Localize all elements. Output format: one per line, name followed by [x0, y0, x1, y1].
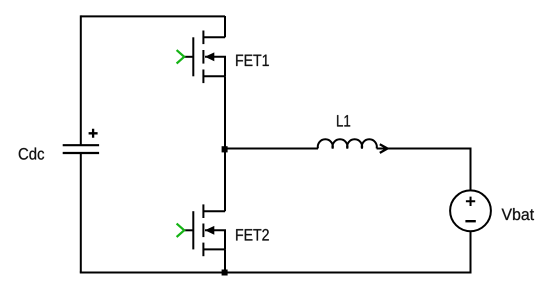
capacitor Cdc polarity plus: [89, 129, 98, 138]
gate arrow FET2 (green): [177, 224, 185, 237]
wire bottom rail: [80, 272, 471, 274]
label L1: [337, 115, 350, 126]
node switch-node junction dot: [222, 146, 228, 152]
label FET2: [236, 229, 269, 241]
transistor Q2 FET2: [177, 204, 225, 256]
wire Vbat bottom vertical: [470, 231, 472, 274]
gate arrow FET1 (green): [177, 50, 185, 63]
wire left rail upper segment: [80, 15, 82, 145]
wire left rail lower segment: [80, 153, 82, 273]
capacitor C1 Cdc: [63, 145, 99, 153]
current arrow on L1 output: [380, 144, 388, 153]
node bottom-rail junction dot: [222, 270, 228, 276]
wire switch node horizontal to inductor: [225, 148, 318, 150]
label FET1: [236, 55, 269, 66]
wire Vbat right vertical upper: [470, 148, 472, 191]
voltage source V1 Vbat: [450, 190, 491, 231]
wire mid vertical FET1 source to FET2 drain: [224, 76, 226, 211]
label Cdc: [19, 148, 44, 160]
inductor L1: [318, 139, 377, 148]
transistor Q1 FET1: [177, 31, 225, 84]
label Vbat: [502, 208, 534, 220]
wire FET1 drain vertical: [224, 16, 226, 37]
wire inductor to Vbat top: [377, 148, 471, 150]
wire FET2 source vertical: [224, 249, 226, 272]
wire top rail from left rail to FET1 drain: [81, 15, 225, 17]
